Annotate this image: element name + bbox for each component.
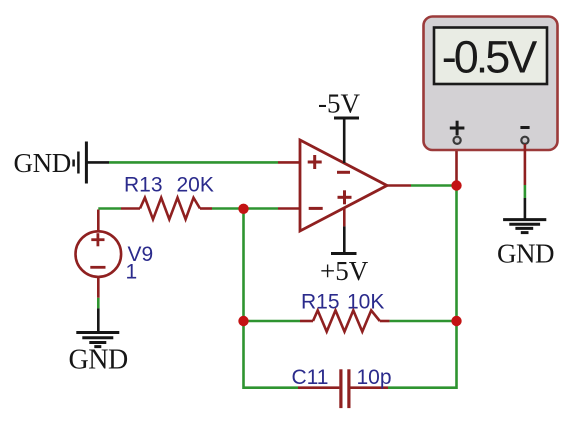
wire V9 top to resistor R13 — [98, 207, 121, 210]
wire V9 bottom to ground GND2 — [97, 298, 100, 309]
svg-text:GND: GND — [69, 345, 128, 376]
power -5V symbol — [334, 117, 359, 120]
wire op-amp output to node C — [411, 184, 457, 187]
op-amp U1 triangle — [300, 140, 387, 231]
svg-text:R15: R15 — [301, 291, 340, 314]
voltage source V9 — [76, 210, 122, 298]
multimeter - terminal — [521, 137, 528, 144]
multimeter XMM1 body — [424, 17, 558, 151]
node A junction dot — [238, 204, 248, 214]
svg-text:C11: C11 — [292, 366, 329, 389]
svg-text:10p: 10p — [357, 366, 392, 389]
wire node C up to multimeter + terminal — [455, 144, 458, 186]
wire multimeter - terminal to ground GND3 — [524, 144, 527, 185]
multimeter + terminal label — [450, 121, 465, 136]
op-amp U1 inverting - mark — [309, 207, 323, 210]
multimeter + terminal — [454, 137, 461, 144]
wire C11 right to node D — [388, 321, 457, 388]
resistor R15 — [300, 310, 390, 331]
wire node A down to node B — [242, 209, 245, 322]
capacitor C11 — [298, 369, 388, 408]
svg-text:1: 1 — [126, 261, 138, 284]
wire node C down to node D — [455, 186, 458, 322]
wire node B down and right to capacitor C11 — [244, 321, 299, 388]
svg-text:20K: 20K — [177, 174, 214, 197]
svg-text:+5V: +5V — [320, 256, 369, 286]
power +5V symbol — [331, 252, 357, 255]
node D junction dot — [451, 316, 461, 326]
wire R15 to node D — [390, 320, 457, 323]
svg-text:GND: GND — [14, 148, 71, 178]
op-amp U1 input pin stubs — [278, 161, 300, 164]
svg-text:-5V: -5V — [318, 89, 360, 119]
node B junction dot — [238, 316, 248, 326]
op-amp U1 negative supply mark — [337, 171, 350, 174]
ground GND3 (below multimeter) — [503, 220, 546, 233]
op-amp U1 non-inverting + mark — [308, 155, 322, 169]
multimeter display — [434, 28, 547, 85]
op-amp U1 positive supply mark — [338, 190, 352, 204]
wire -5V to op-amp top — [343, 118, 346, 163]
wire node A to op-amp inverting input — [244, 207, 279, 210]
wire R13 to node A — [212, 207, 244, 210]
wire node B to R15 — [244, 320, 301, 323]
svg-text:-0.5V: -0.5V — [442, 32, 538, 83]
wire GND1 to op-amp non-inverting input (node IN+) — [87, 161, 109, 164]
ground GND2 (below V9) — [76, 333, 119, 347]
svg-text:GND: GND — [497, 239, 554, 269]
ground GND1 (top-left earth symbol) — [74, 142, 87, 184]
op-amp U1 positive supply pin stub — [343, 208, 346, 226]
node C junction dot — [451, 180, 461, 190]
resistor R13 — [121, 198, 212, 220]
wire +5V to op-amp bottom — [343, 226, 346, 253]
svg-text:R13: R13 — [124, 174, 163, 197]
op-amp U1 output pin stub — [386, 184, 411, 187]
multimeter - terminal label — [520, 126, 529, 129]
svg-text:10K: 10K — [347, 291, 384, 314]
